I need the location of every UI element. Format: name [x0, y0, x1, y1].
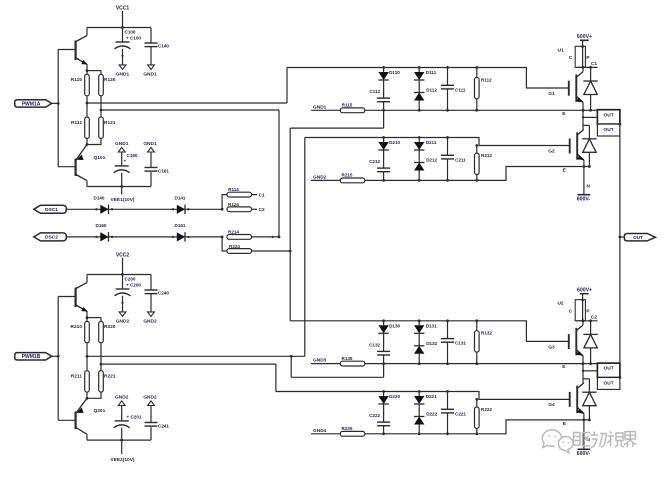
zener diode D111: [414, 68, 437, 81]
svg-text:Q101: Q101: [94, 155, 106, 161]
zener diode D211: [414, 138, 437, 151]
svg-text:GND1: GND1: [143, 72, 157, 78]
wire gate block bottom rail: [365, 363, 598, 365]
svg-text:R112: R112: [481, 77, 492, 82]
port DSC2: [34, 233, 67, 241]
wire lower emitter: [583, 413, 586, 421]
svg-text:D161: D161: [175, 223, 186, 228]
diode D141: [175, 196, 186, 215]
resistor R221: [99, 371, 116, 392]
svg-text:600V+: 600V+: [577, 288, 592, 294]
wire lower node: [86, 392, 101, 400]
svg-text:G4: G4: [548, 402, 555, 408]
svg-text:+: +: [124, 158, 127, 163]
svg-text:600V-: 600V-: [577, 196, 591, 202]
wire emitter node: [86, 316, 101, 321]
capacitor C100 electrolytic: [115, 28, 142, 70]
capacitor C241: [145, 401, 170, 440]
wire gate block top rail: [287, 68, 569, 89]
svg-text:+ C100: + C100: [126, 36, 141, 41]
svg-text:DSC1: DSC1: [45, 207, 58, 213]
wire vee rail: [87, 439, 151, 442]
wire vee rail: [87, 185, 151, 188]
port PWM1B: [15, 353, 60, 361]
wire driver1 out2 down-lane: [101, 110, 280, 238]
svg-text:U2: U2: [558, 301, 564, 307]
svg-text:R212: R212: [481, 153, 492, 158]
wire R214 to lane: [252, 236, 280, 238]
wire mid junctions: [86, 96, 103, 117]
capacitor C200 electrolytic: [115, 275, 142, 317]
svg-text:R215: R215: [342, 173, 353, 178]
resistor R111: [71, 117, 89, 138]
wire emitter to rail: [582, 356, 592, 365]
svg-text:C140: C140: [158, 44, 169, 49]
transistor Q200 NPN upper: [58, 275, 87, 318]
resistor R120: [99, 74, 116, 95]
svg-text:G3: G3: [548, 345, 555, 351]
wire DSC2 row: [66, 236, 223, 239]
svg-text:GND2: GND2: [116, 319, 130, 325]
busbar link U2 collector (C-P): [558, 299, 591, 321]
svg-text:OUT: OUT: [604, 127, 614, 133]
svg-text:C161: C161: [158, 169, 169, 174]
svg-text:D220: D220: [389, 394, 400, 399]
wire base riser: [57, 297, 59, 421]
svg-text:C160: C160: [127, 153, 138, 158]
freewheel diode lower: [582, 379, 596, 422]
resistor R115: [311, 103, 365, 113]
wire block3 return jog lane: [291, 356, 383, 377]
svg-text:R135: R135: [342, 356, 353, 361]
svg-text:R220: R220: [104, 324, 116, 330]
svg-text:C1: C1: [259, 193, 265, 199]
svg-text:C111: C111: [455, 87, 466, 92]
capacitor C140: [145, 28, 170, 70]
power net VCC2: [116, 252, 130, 274]
capacitor C240: [145, 275, 170, 317]
watermark text (drive-vision): [574, 432, 637, 448]
svg-text:D212: D212: [426, 158, 437, 163]
wire gate block top rail: [305, 138, 569, 146]
svg-text:GND2: GND2: [115, 395, 129, 401]
resistor R214: [227, 230, 252, 240]
svg-text:D221: D221: [426, 394, 437, 399]
zener diode D212: [414, 150, 438, 180]
IGBT U1 lower (G2): [548, 130, 584, 161]
wire lower emitter: [583, 160, 586, 168]
port OUT (upper box): [597, 363, 620, 377]
svg-text:C: C: [569, 55, 573, 61]
svg-text:OUT: OUT: [604, 112, 614, 118]
capacitor C221: [441, 392, 466, 434]
power net VCC1: [116, 6, 130, 28]
svg-text:G2: G2: [548, 148, 555, 154]
svg-text:D131: D131: [426, 323, 437, 328]
svg-text:GND1: GND1: [313, 104, 327, 110]
svg-text:C241: C241: [158, 424, 169, 429]
transistor Q101 PNP lower: [58, 145, 105, 187]
svg-text:GND2: GND2: [143, 395, 157, 401]
svg-text:GND3: GND3: [313, 358, 327, 364]
node N / power net 600V-: [577, 167, 591, 203]
svg-text:GND2: GND2: [313, 174, 327, 180]
svg-text:R124: R124: [228, 202, 239, 207]
zener diode D112: [414, 80, 437, 110]
diode D130: [378, 321, 400, 334]
port OUT (lower box): [597, 124, 620, 136]
wire midpoint to lower collector: [583, 379, 589, 383]
transistor Q201 PNP lower: [58, 398, 105, 440]
svg-text:600V+: 600V+: [577, 34, 592, 40]
capacitor C160 electrolytic: [114, 147, 138, 186]
svg-text:C200: C200: [125, 277, 136, 282]
svg-text:GND1: GND1: [143, 141, 157, 147]
diode D160: [96, 223, 109, 242]
svg-text:R120: R120: [104, 77, 116, 83]
power net 600V+: [577, 288, 592, 300]
wire midpoint to lower collector: [583, 125, 589, 129]
busbar link U1 collector (C-P): [558, 45, 591, 67]
svg-text:R225: R225: [342, 426, 353, 431]
svg-text:D210: D210: [389, 140, 400, 145]
svg-text:R214: R214: [228, 230, 239, 235]
svg-text:GND1: GND1: [116, 72, 130, 78]
wire base riser: [57, 50, 59, 167]
node C2: [577, 315, 598, 323]
wire mid junctions: [86, 343, 103, 371]
wire emitter to rail: [582, 102, 592, 112]
wire driver2 out2 to block4: [101, 364, 276, 391]
resistor R220: [99, 321, 116, 342]
svg-text:D222: D222: [426, 412, 437, 417]
transistor Q100 NPN upper: [58, 28, 87, 71]
wire midpoint: [582, 364, 597, 379]
net label VEE2(10V): [111, 440, 135, 463]
zener diode D221: [414, 392, 437, 405]
svg-text:C: C: [569, 309, 573, 315]
resistor R114: [222, 187, 257, 209]
svg-text:+ C200: + C200: [126, 283, 141, 288]
capacitor C131: [441, 321, 466, 364]
wire vcc rail: [87, 273, 151, 276]
IGBT U2 upper (G3): [548, 321, 583, 356]
svg-text:OUT: OUT: [604, 366, 614, 372]
svg-text:600V-: 600V-: [577, 451, 591, 457]
wire block1 return jog lane: [289, 110, 384, 320]
resistor R225: [311, 426, 365, 436]
resistor R212: [475, 144, 493, 180]
svg-text:OUT: OUT: [633, 235, 643, 240]
svg-text:GND1: GND1: [115, 141, 129, 147]
svg-text:R221: R221: [104, 374, 116, 380]
port OUT (right): [620, 234, 656, 241]
svg-text:R110: R110: [71, 77, 83, 83]
wire R224 to lane: [252, 250, 291, 252]
capacitor C161: [145, 147, 170, 186]
svg-text:GND4: GND4: [313, 428, 327, 434]
wire emitter node: [86, 69, 101, 74]
svg-text:D110: D110: [389, 70, 400, 75]
wire driver2 out1: [87, 355, 305, 358]
svg-text:C222: C222: [369, 413, 380, 418]
capacitor C212: [369, 150, 390, 180]
wire DSC1 row: [66, 208, 223, 211]
resistor R110: [71, 74, 90, 95]
svg-text:D130: D130: [389, 323, 400, 328]
svg-text:C221: C221: [455, 411, 466, 416]
resistor R112: [475, 68, 493, 111]
svg-text:VEE2(10V): VEE2(10V): [111, 457, 135, 463]
svg-text:VCC1: VCC1: [116, 6, 130, 12]
diode D140: [94, 196, 109, 215]
capacitor C132: [369, 333, 390, 363]
svg-text:D140: D140: [94, 196, 105, 201]
svg-text:C2: C2: [259, 207, 265, 213]
resistor R132: [475, 321, 493, 364]
wire vcc rail: [87, 26, 151, 29]
svg-text:D112: D112: [426, 88, 437, 93]
wire gate block bottom rail: [365, 420, 591, 434]
svg-text:R132: R132: [481, 331, 492, 336]
svg-text:C100: C100: [125, 30, 136, 35]
svg-text:Q201: Q201: [94, 408, 106, 414]
wire block2 feed lane: [304, 138, 306, 357]
capacitor C112: [369, 80, 390, 110]
svg-text:C1: C1: [591, 61, 597, 67]
wire driver1 out1 to block1: [87, 68, 287, 104]
resistor R121: [99, 117, 116, 138]
zener diode D222: [414, 404, 438, 434]
wire gate block bottom rail: [365, 109, 598, 111]
diode D161: [175, 223, 186, 242]
capacitor C211: [441, 138, 466, 181]
wire midpoint: [582, 110, 597, 125]
freewheel diode lower: [582, 125, 596, 168]
zener diode D132: [414, 333, 438, 363]
svg-text:VEE1(10V): VEE1(10V): [111, 197, 135, 203]
svg-text:VCC2: VCC2: [116, 252, 130, 258]
wire gate block bottom rail: [365, 167, 591, 181]
port OUT (lower box): [597, 378, 620, 390]
resistor R124: [227, 202, 257, 212]
port DSC1: [34, 205, 67, 213]
svg-text:C240: C240: [158, 291, 169, 296]
svg-text:N: N: [587, 184, 591, 190]
resistor R222: [475, 398, 493, 434]
svg-text:C212: C212: [369, 159, 380, 164]
port PWM1A: [15, 100, 60, 108]
svg-text:R115: R115: [342, 103, 353, 108]
capacitor C201 electrolytic: [114, 401, 142, 440]
svg-text:GND2: GND2: [143, 319, 157, 325]
wire lower node: [86, 138, 101, 146]
svg-text:D211: D211: [426, 140, 437, 145]
svg-text:D132: D132: [426, 341, 437, 346]
resistor R215: [311, 173, 365, 183]
svg-text:C2: C2: [591, 315, 597, 321]
svg-text:OUT: OUT: [604, 380, 614, 386]
capacitor C222: [369, 404, 390, 434]
watermark wechat logo: [542, 430, 573, 453]
diode D220: [378, 392, 400, 405]
node C1: [577, 61, 598, 69]
svg-text:D160: D160: [96, 223, 107, 228]
svg-text:R211: R211: [71, 374, 83, 380]
port OUT (upper box): [597, 110, 620, 124]
zener diode D131: [414, 321, 437, 334]
svg-text:+ C201: + C201: [127, 414, 142, 419]
svg-text:C131: C131: [455, 341, 466, 346]
power net 600V+: [577, 34, 592, 46]
svg-text:C132: C132: [369, 342, 380, 347]
resistor R135: [311, 356, 365, 366]
diode D110: [378, 68, 400, 81]
svg-text:G1: G1: [548, 91, 555, 97]
svg-text:DSC2: DSC2: [45, 235, 58, 241]
wire gate block top rail: [276, 392, 569, 400]
svg-text:R121: R121: [104, 120, 116, 126]
IGBT U2 lower (G4): [548, 383, 584, 414]
svg-text:C211: C211: [455, 157, 466, 162]
svg-text:D141: D141: [175, 196, 186, 201]
svg-text:PWM1A: PWM1A: [22, 101, 41, 107]
svg-text:R224: R224: [229, 244, 240, 249]
svg-text:U1: U1: [558, 47, 564, 53]
net label VEE1(10V): [111, 187, 135, 204]
svg-text:R111: R111: [71, 120, 82, 126]
freewheel diode upper: [583, 321, 597, 364]
svg-text:R210: R210: [71, 324, 83, 330]
wire output bus: [619, 123, 622, 379]
IGBT U1 upper (G1): [548, 67, 583, 102]
diode D210: [378, 138, 400, 151]
svg-text:D111: D111: [426, 70, 437, 75]
svg-text:C112: C112: [369, 89, 380, 94]
wire gate block top rail: [290, 321, 569, 342]
resistor R211: [71, 371, 90, 392]
capacitor C111: [441, 68, 466, 111]
resistor R224: [222, 237, 251, 254]
svg-text:PWM1B: PWM1B: [22, 354, 41, 360]
resistor R210: [71, 321, 90, 342]
freewheel diode upper: [583, 67, 597, 110]
svg-text:R222: R222: [481, 407, 492, 412]
node N / power net 600V-: [577, 420, 591, 457]
svg-text:R114: R114: [228, 187, 239, 192]
